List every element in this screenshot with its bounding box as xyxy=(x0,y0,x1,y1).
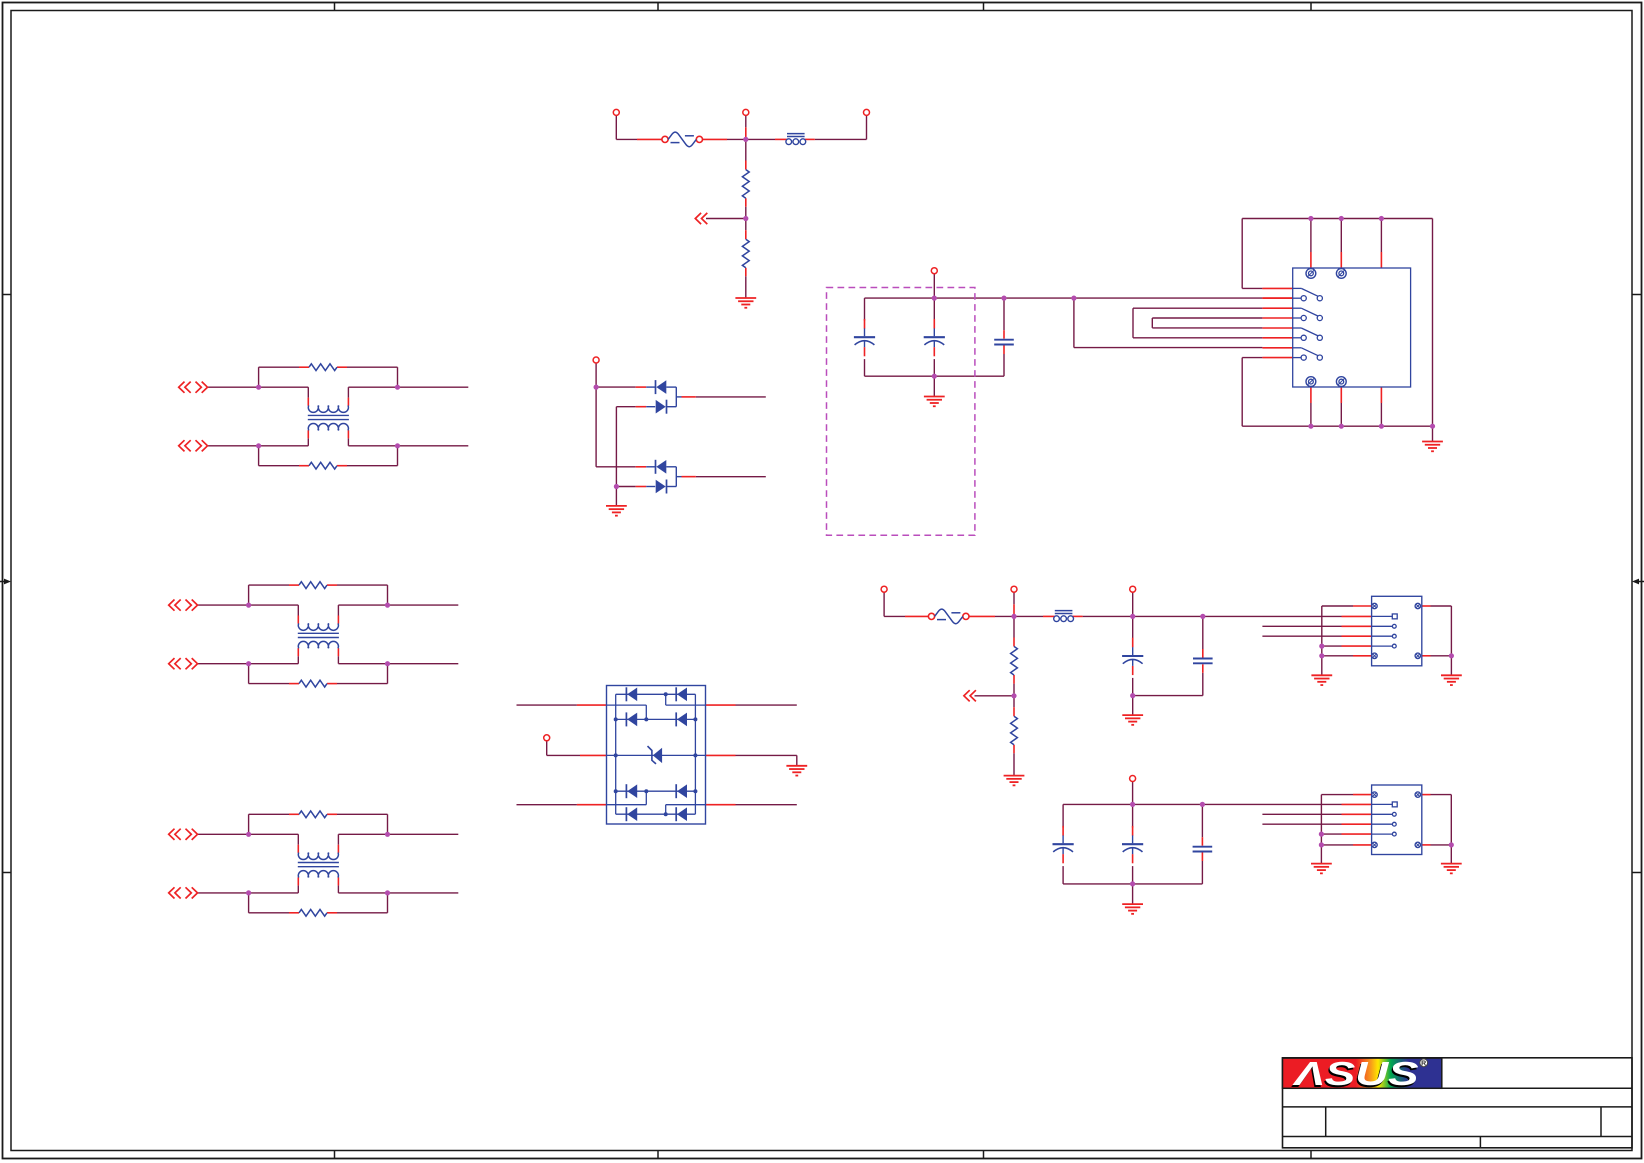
svg-text:ΛSUS: ΛSUS xyxy=(1292,1055,1419,1092)
svg-text:R: R xyxy=(1421,1061,1426,1068)
